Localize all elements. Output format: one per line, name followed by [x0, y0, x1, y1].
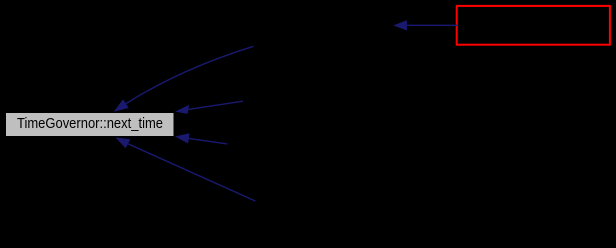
wire E2 [188, 101, 243, 109]
wire E3 [189, 138, 227, 144]
arrowhead E5 [393, 20, 407, 30]
arrowhead E3 [175, 133, 190, 143]
wire E5 [407, 24, 457, 26]
wire E1 [126, 46, 254, 103]
wire E4 [128, 144, 255, 201]
node (current, red) [457, 6, 610, 45]
arrowhead E1 [114, 99, 129, 111]
arrowhead E4 [116, 138, 131, 149]
node TimeGovernor::next_time [6, 113, 175, 137]
svg-text:TimeGovernor::next_time: TimeGovernor::next_time [17, 116, 163, 132]
arrowhead E2 [175, 105, 189, 114]
edge E1 (top caller -> next_time) [114, 20, 457, 201]
